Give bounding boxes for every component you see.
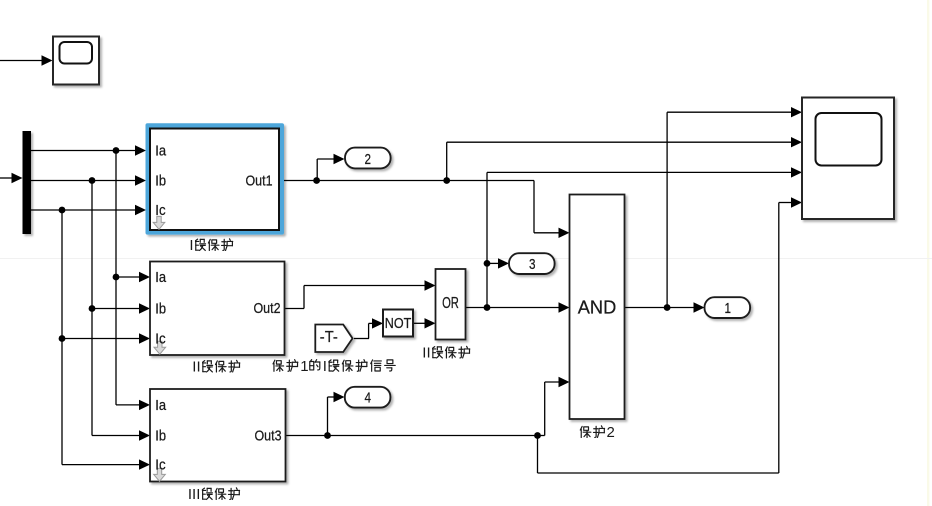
svg-text:Ia: Ia	[155, 144, 167, 160]
svg-text:Out2: Out2	[254, 301, 281, 317]
svg-text:NOT: NOT	[385, 316, 412, 332]
svg-text:Ic: Ic	[155, 203, 165, 219]
svg-text:Ia: Ia	[155, 398, 167, 414]
svg-text:-T-: -T-	[320, 329, 338, 346]
svg-text:3: 3	[529, 256, 536, 273]
svg-text:III: III	[188, 486, 201, 503]
svg-text:AND: AND	[578, 298, 617, 318]
svg-text:2: 2	[365, 151, 372, 168]
svg-text:Out1: Out1	[246, 173, 273, 189]
svg-text:Ic: Ic	[155, 332, 165, 348]
svg-text:II: II	[192, 359, 200, 376]
svg-text:II: II	[422, 345, 430, 362]
svg-text:2: 2	[607, 424, 615, 441]
svg-text:Ib: Ib	[155, 174, 166, 190]
svg-text:Out3: Out3	[255, 429, 282, 445]
svg-text:Ic: Ic	[155, 458, 165, 474]
svg-text:Ib: Ib	[155, 302, 166, 318]
svg-text:Ib: Ib	[155, 429, 166, 445]
svg-text:I: I	[323, 358, 327, 375]
svg-text:1: 1	[725, 300, 732, 317]
svg-text:1: 1	[300, 358, 308, 375]
svg-text:I: I	[189, 237, 193, 254]
svg-text:OR: OR	[442, 295, 459, 312]
svg-text:Ia: Ia	[155, 270, 167, 286]
svg-text:4: 4	[365, 390, 372, 407]
